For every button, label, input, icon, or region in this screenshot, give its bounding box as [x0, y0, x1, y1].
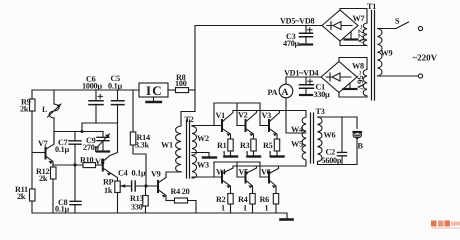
ground (R3) — [248, 155, 261, 157]
resistor R2 — [216, 194, 233, 214]
ground (T2 center tap) — [192, 153, 216, 158]
svg-text:C4: C4 — [118, 169, 128, 178]
svg-text:1: 1 — [265, 204, 269, 213]
svg-text:2k: 2k — [39, 174, 48, 183]
ground (C3) — [300, 43, 312, 45]
svg-text:1000µ: 1000µ — [82, 82, 102, 91]
T2 winding W1 — [161, 126, 181, 172]
svg-text:W3: W3 — [197, 161, 209, 170]
svg-text:W6: W6 — [324, 131, 336, 140]
wire: W1 bottom to V9 collector — [166, 172, 181, 178]
transistor V5 — [239, 166, 257, 194]
svg-text:0.1µ: 0.1µ — [132, 169, 146, 178]
svg-text:1: 1 — [243, 204, 247, 213]
svg-text:V7: V7 — [38, 139, 48, 148]
ground (C1) — [300, 94, 312, 96]
wire: main bottom ground rail — [32, 213, 287, 219]
svg-text:~56V: ~56V — [356, 71, 366, 91]
svg-text:470µ: 470µ — [283, 39, 300, 48]
watermark — [431, 221, 460, 229]
capacitor C3 — [283, 26, 313, 49]
wire: T3 secondary loop — [318, 117, 358, 165]
transducer B — [353, 132, 363, 151]
capacitor C1 — [300, 77, 331, 99]
svg-text:PA: PA — [268, 88, 278, 97]
T3 winding W4/W5 — [291, 117, 306, 160]
ground (main) — [281, 218, 293, 221]
resistor R13 — [130, 186, 148, 213]
svg-text:B: B — [358, 142, 364, 151]
svg-text:V3: V3 — [262, 111, 272, 120]
svg-text:A: A — [282, 88, 289, 98]
transistor V6 — [261, 166, 279, 194]
ground (R1) — [225, 155, 238, 157]
switch S — [378, 17, 423, 31]
wire: W3 bottom to V4 base — [192, 176, 222, 178]
resistor R1 — [217, 139, 233, 159]
ground (bridge VD1-VD4 negative) — [344, 83, 357, 89]
svg-text:VD5~VD8: VD5~VD8 — [280, 17, 315, 26]
svg-text:IC: IC — [146, 83, 163, 98]
bridge rectifier VD5-VD8 — [322, 10, 358, 41]
svg-text:0.1µ: 0.1µ — [55, 205, 69, 214]
wire: C5/C6 bottoms to oscillator node — [82, 123, 118, 132]
T1 winding W8 — [339, 58, 367, 98]
wire: base drops top row — [214, 103, 260, 126]
junction dot C7/C8 node — [73, 163, 76, 166]
svg-text:V5: V5 — [239, 168, 249, 177]
svg-text:1: 1 — [221, 204, 225, 213]
wire: left bias rail — [32, 89, 139, 91]
wire: C5 column down to V8 collector — [103, 123, 118, 162]
wire: bridge2 output to PA and center tap — [286, 77, 321, 133]
resistor R12 — [36, 165, 56, 213]
svg-text:V1: V1 — [216, 111, 226, 120]
T1 winding W9 — [378, 29, 393, 76]
T3 winding W6 — [318, 117, 336, 162]
svg-text:VD1~VD4: VD1~VD4 — [284, 69, 319, 78]
svg-text:1k: 1k — [104, 186, 113, 195]
resistor R4 (20) emitter of V9 — [166, 187, 196, 213]
svg-text:V6: V6 — [261, 168, 271, 177]
svg-text:3.3k: 3.3k — [135, 141, 149, 150]
potentiometer RP — [103, 168, 127, 213]
capacitor C7 — [55, 132, 81, 166]
svg-text:~22V: ~22V — [357, 25, 367, 45]
wire: main top +rail from R8 riser to bridge VD5-VD8 — [195, 26, 322, 112]
capacitor C6 (1000u) — [82, 75, 103, 124]
svg-text:W1: W1 — [161, 141, 173, 150]
T2 core — [187, 120, 190, 178]
transistor V7 — [32, 139, 54, 165]
svg-text:L: L — [42, 105, 48, 114]
wire: W2 top to V1 base — [192, 125, 222, 127]
mains terminal bottom — [378, 53, 438, 79]
svg-text:2k: 2k — [20, 104, 29, 113]
capacitor C8 — [55, 165, 81, 214]
T2 winding W2 — [192, 126, 209, 155]
transistor V9 — [151, 170, 166, 201]
transistor V8 — [95, 157, 105, 171]
svg-text:0.1µ: 0.1µ — [108, 82, 122, 91]
transistor V3 — [262, 111, 280, 140]
transistor V2 — [238, 111, 257, 140]
svg-text:S: S — [395, 17, 400, 26]
wire: V7 emitter node — [53, 164, 83, 166]
T3 core — [311, 113, 314, 163]
svg-text:~220V: ~220V — [413, 53, 438, 63]
wire: base rail top row — [214, 102, 260, 104]
capacitor C9 (variable 270p) — [83, 132, 110, 153]
wire: collector rail top row to W4 — [233, 111, 306, 118]
resistor R3 — [240, 139, 256, 159]
capacitor C4 and base wire — [118, 169, 158, 192]
svg-text:2k: 2k — [17, 192, 26, 201]
ammeter PA — [268, 84, 293, 98]
svg-text:5600p: 5600p — [322, 156, 342, 165]
svg-text:V4: V4 — [216, 168, 226, 177]
svg-text:V8: V8 — [95, 157, 105, 166]
svg-text:R4 20: R4 20 — [171, 187, 190, 196]
wire: collector rail bottom row to W5 — [233, 161, 306, 167]
svg-text:W5: W5 — [291, 140, 303, 149]
bridge rectifier VD1-VD4 — [321, 62, 357, 93]
svg-text:W8: W8 — [352, 62, 364, 71]
resistor R9 — [20, 90, 35, 153]
wire: riser to T2 primary — [181, 112, 195, 127]
capacitor C2 — [322, 117, 347, 165]
svg-text:W9: W9 — [381, 49, 393, 58]
junction dot V9 base node — [144, 184, 147, 187]
resistor R4 (1 ohm) — [238, 194, 255, 214]
resistor R10 — [80, 156, 96, 168]
resistor R5 — [263, 139, 280, 159]
T1 winding W7 — [340, 9, 367, 46]
resistor R11 — [15, 153, 35, 214]
svg-text:R10: R10 — [80, 156, 94, 165]
svg-text:330µ: 330µ — [314, 90, 331, 99]
transistor V1 — [216, 111, 234, 140]
ground (R5) — [271, 155, 284, 157]
resistor R6 — [260, 194, 279, 214]
svg-text:W7: W7 — [353, 14, 365, 23]
inductor L (adjustable) — [42, 90, 61, 144]
capacitor C5 (0.1u) — [108, 74, 124, 123]
resistor R8 — [168, 73, 195, 93]
wire: base rail bottom row — [214, 161, 260, 163]
svg-text:W4: W4 — [291, 125, 303, 134]
svg-text:T3: T3 — [316, 107, 325, 116]
svg-text:V9: V9 — [151, 170, 161, 179]
svg-text:100: 100 — [175, 79, 187, 88]
svg-text:330: 330 — [131, 203, 143, 212]
ground (bridge VD5-VD8 negative) — [345, 32, 358, 40]
svg-text:V2: V2 — [238, 111, 248, 120]
T1 core — [372, 11, 375, 101]
T2 winding W3 — [192, 156, 209, 179]
svg-text:T1: T1 — [367, 2, 376, 11]
IC box — [139, 83, 168, 98]
svg-text:0.1µ: 0.1µ — [55, 145, 69, 154]
ground (C9) — [97, 150, 109, 152]
ground (IC) — [147, 97, 162, 102]
transistor V4 — [216, 166, 233, 194]
resistor R14 — [130, 90, 150, 186]
svg-text:W2: W2 — [197, 134, 209, 143]
wire: V7 collector node to C7/C9 — [54, 132, 103, 144]
